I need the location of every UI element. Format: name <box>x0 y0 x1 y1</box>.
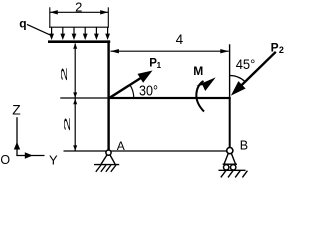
svg-text:A: A <box>117 139 125 153</box>
angle arc 30 <box>130 85 134 98</box>
middle beam member <box>107 97 230 99</box>
left column member <box>107 40 109 150</box>
support A triangle legs <box>101 154 107 164</box>
svg-text:2: 2 <box>279 45 284 55</box>
svg-text:q: q <box>19 17 26 31</box>
svg-text:45°: 45° <box>236 56 256 72</box>
extension line right of top dimension <box>107 7 109 27</box>
svg-text:B: B <box>240 138 248 152</box>
top cantilever beam member <box>48 40 110 43</box>
support B ground line <box>219 169 246 171</box>
distributed load q top line <box>49 26 109 28</box>
support B roller right <box>231 165 236 170</box>
right column lower member <box>229 97 231 148</box>
svg-text:2: 2 <box>60 67 70 82</box>
svg-text:30°: 30° <box>139 84 158 100</box>
support B roller left <box>224 165 229 170</box>
dimension line 4 <box>110 50 228 52</box>
support A hatching <box>96 165 116 172</box>
extension line left of top dimension <box>49 7 51 27</box>
force P1 arrow <box>109 77 143 98</box>
left vertical dimension line <box>74 43 76 150</box>
moment M arc <box>196 81 204 112</box>
axis Y line <box>16 155 44 157</box>
support A ground line <box>94 164 119 166</box>
svg-text:P: P <box>271 40 279 54</box>
right column upper (extension) <box>229 44 231 97</box>
svg-text:Z: Z <box>12 103 20 118</box>
leader line from q to load <box>27 24 51 35</box>
svg-text:M: M <box>193 64 203 78</box>
axis Z arrowhead <box>14 142 20 150</box>
svg-text:Y: Y <box>49 152 58 167</box>
svg-text:1: 1 <box>157 61 162 70</box>
support B hatching <box>221 171 248 178</box>
axis Z line <box>16 117 18 156</box>
distributed load arrows <box>49 27 110 40</box>
support B triangle base <box>223 163 237 165</box>
svg-text:2: 2 <box>62 117 72 132</box>
support A pin circle <box>106 150 111 155</box>
angle arc 45 <box>230 76 246 83</box>
support B pin circle <box>227 148 233 154</box>
bottom chord line <box>64 150 231 152</box>
svg-text:4: 4 <box>176 32 184 47</box>
force P2 arrow <box>239 52 276 88</box>
svg-text:O: O <box>0 153 10 167</box>
moment M arrowhead <box>196 77 216 91</box>
dimension line top (span 2) <box>50 11 108 13</box>
extension line middle left <box>60 97 107 99</box>
support B triangle legs <box>224 153 228 164</box>
axis Y arrowhead <box>25 152 33 158</box>
